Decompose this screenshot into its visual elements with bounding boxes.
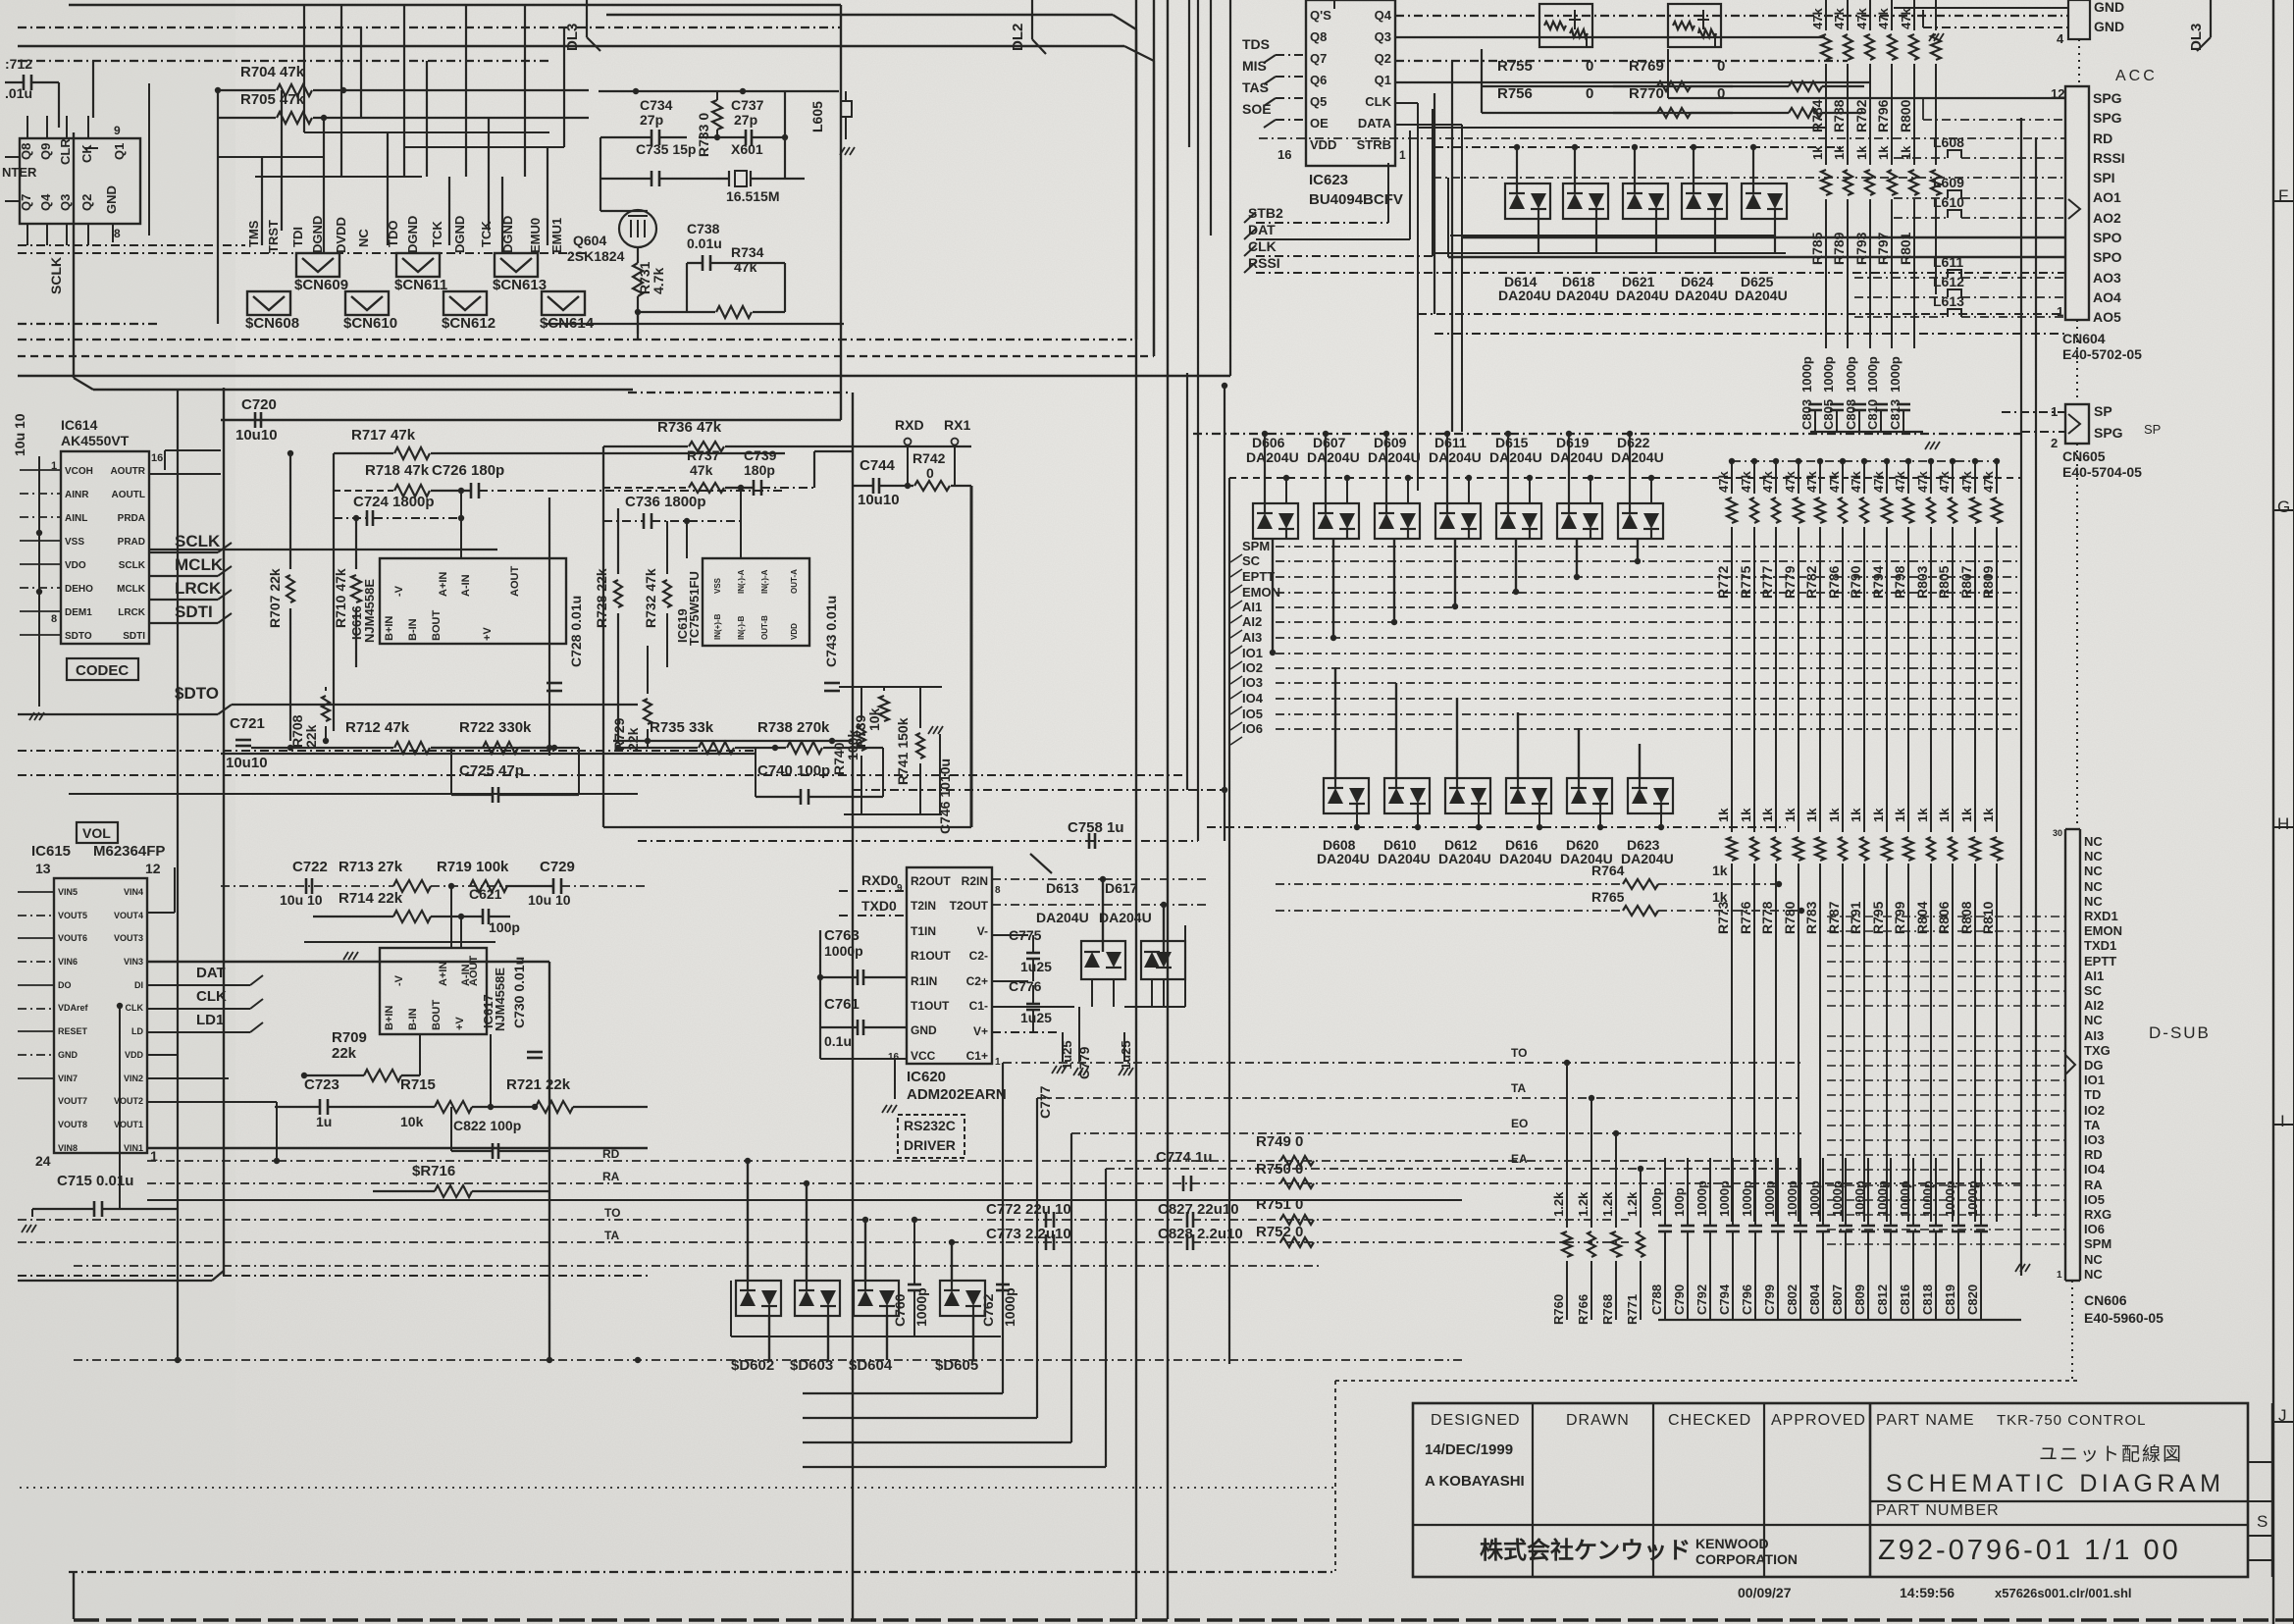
- wire: [448, 177, 450, 245]
- svg-text:IN(-)-B: IN(-)-B: [737, 615, 746, 640]
- svg-text:EO: EO: [1511, 1117, 1528, 1130]
- wire: [1153, 0, 1155, 356]
- svg-text:AI2: AI2: [2084, 998, 2104, 1013]
- wire: [1433, 177, 2065, 179]
- svg-text:1000p: 1000p: [913, 1287, 929, 1327]
- wire: [18, 713, 218, 715]
- svg-text:E40-5702-05: E40-5702-05: [2062, 346, 2142, 362]
- svg-text:I: I: [2280, 1112, 2285, 1130]
- svg-text:EPTT: EPTT: [1242, 569, 1275, 584]
- wire: [1507, 434, 1509, 503]
- svg-text:R777: R777: [1759, 565, 1775, 599]
- wire: [426, 61, 428, 177]
- svg-text:C730 0.01u: C730 0.01u: [511, 957, 527, 1028]
- wire: [2071, 1281, 2073, 1382]
- svg-text:C743 0.01u: C743 0.01u: [823, 596, 839, 667]
- svg-text:DRAWN: DRAWN: [1566, 1412, 1630, 1429]
- wire: [613, 740, 853, 742]
- svg-text:R717 47k: R717 47k: [351, 427, 416, 444]
- svg-text:TKR-750 CONTROL: TKR-750 CONTROL: [1997, 1412, 2147, 1429]
- svg-text:OUT-A: OUT-A: [790, 569, 799, 594]
- svg-text:1k: 1k: [1810, 145, 1825, 160]
- svg-text:C804: C804: [1807, 1283, 1822, 1315]
- diode D623: [1628, 778, 1673, 813]
- svg-text:VDD: VDD: [1310, 137, 1336, 152]
- svg-text:L609: L609: [1933, 175, 1964, 190]
- wire: [970, 486, 973, 827]
- svg-text:1000p: 1000p: [824, 943, 863, 959]
- wire: [223, 388, 225, 1276]
- wire: [1434, 333, 2065, 335]
- wire: [2076, 444, 2078, 829]
- wire: [20, 469, 61, 471]
- svg-text:IO6: IO6: [1242, 721, 1263, 736]
- svg-text:TXD0: TXD0: [861, 898, 897, 914]
- VOL box: [77, 822, 118, 843]
- svg-text:DA204U: DA204U: [1099, 910, 1152, 925]
- wire: [2035, 137, 2037, 1217]
- wire: [18, 1275, 648, 1277]
- wire: [1629, 434, 1631, 503]
- wire: [333, 453, 335, 731]
- wire: [1256, 222, 1388, 224]
- svg-text:R738 270k: R738 270k: [757, 719, 830, 736]
- svg-text:1000p: 1000p: [1002, 1287, 1017, 1327]
- svg-text:CLK: CLK: [1365, 94, 1391, 109]
- wire: [1827, 916, 2065, 917]
- svg-text:X601: X601: [731, 141, 763, 157]
- sheet bottom border: [74, 1618, 2294, 1621]
- svg-text:R784: R784: [1809, 99, 1825, 132]
- wire: [563, 27, 565, 147]
- svg-text:R718 47k: R718 47k: [365, 462, 430, 479]
- diode D620: [1567, 778, 1612, 813]
- svg-text:1k: 1k: [1871, 808, 1886, 822]
- svg-text:DAT: DAT: [1248, 222, 1276, 237]
- wire: [501, 177, 503, 253]
- diode $D604: [854, 1281, 899, 1316]
- wire: [18, 750, 756, 752]
- svg-text:MIS: MIS: [1242, 58, 1267, 74]
- svg-text:TD: TD: [2084, 1087, 2101, 1102]
- svg-text:R713 27k: R713 27k: [339, 859, 403, 875]
- svg-text:R707 22k: R707 22k: [267, 568, 283, 628]
- svg-text:CK: CK: [79, 144, 94, 163]
- svg-text:A+IN: A+IN: [438, 572, 449, 597]
- svg-text:+V: +V: [482, 627, 494, 641]
- svg-text:Q6: Q6: [1310, 73, 1327, 87]
- wire: [972, 1316, 974, 1360]
- svg-text:22k: 22k: [303, 724, 319, 748]
- svg-text:1.2k: 1.2k: [1551, 1191, 1566, 1217]
- svg-text:D611: D611: [1434, 435, 1467, 450]
- svg-text:R1IN: R1IN: [911, 974, 937, 988]
- wire: [1930, 527, 1932, 832]
- wire: [92, 61, 94, 118]
- svg-text:CLK: CLK: [1248, 238, 1277, 254]
- svg-text:IO3: IO3: [1242, 675, 1263, 690]
- svg-text:SCLK: SCLK: [175, 532, 221, 550]
- svg-text:10k: 10k: [866, 707, 882, 731]
- svg-text:R735 33k: R735 33k: [650, 719, 714, 736]
- svg-text:DA204U: DA204U: [1429, 449, 1482, 465]
- svg-text:-V: -V: [393, 974, 405, 986]
- svg-text:R783: R783: [1803, 901, 1819, 934]
- svg-text:47k: 47k: [734, 259, 757, 275]
- wire: [1578, 728, 1580, 778]
- svg-text:TA: TA: [604, 1229, 619, 1242]
- wire: [490, 1034, 492, 1107]
- svg-text:GND: GND: [911, 1023, 937, 1037]
- svg-text:TC75W51FU: TC75W51FU: [687, 571, 702, 646]
- svg-text:C1+: C1+: [966, 1049, 988, 1063]
- svg-text:AO2: AO2: [2093, 210, 2121, 226]
- wire: [323, 118, 325, 253]
- wire: [1842, 527, 1844, 832]
- diode D621: [1623, 183, 1668, 219]
- svg-text:VOUT4: VOUT4: [114, 911, 143, 920]
- svg-text:C737: C737: [731, 97, 764, 113]
- svg-text:AI1: AI1: [1242, 600, 1262, 614]
- svg-text:R732 47k: R732 47k: [643, 568, 658, 628]
- wire: [1395, 60, 1848, 62]
- wire: [488, 118, 490, 231]
- svg-text:C816: C816: [1898, 1284, 1912, 1315]
- svg-text:IO1: IO1: [1242, 646, 1263, 660]
- svg-text:C788: C788: [1649, 1284, 1664, 1315]
- svg-text:R769: R769: [1629, 58, 1664, 75]
- wire: [840, 5, 842, 420]
- diode D619: [1557, 503, 1602, 539]
- svg-text:R705 47k: R705 47k: [240, 91, 305, 108]
- svg-text:1k: 1k: [1854, 145, 1869, 160]
- wire SPM: [1276, 546, 2021, 548]
- svg-text:47k: 47k: [1871, 471, 1886, 493]
- svg-text:AINL: AINL: [65, 513, 87, 524]
- svg-text:C762: C762: [980, 1293, 996, 1327]
- svg-text:$CN613: $CN613: [493, 277, 547, 293]
- wire: [147, 912, 175, 914]
- svg-text:DA204U: DA204U: [1499, 851, 1552, 866]
- svg-text:DA204U: DA204U: [1735, 288, 1788, 303]
- svg-text:R809: R809: [1980, 565, 1996, 599]
- svg-text:OUT-B: OUT-B: [760, 615, 769, 640]
- svg-text:27p: 27p: [734, 112, 757, 128]
- svg-text:R782: R782: [1803, 565, 1819, 599]
- diode $D602: [736, 1281, 781, 1316]
- svg-text:IC614: IC614: [61, 417, 98, 433]
- svg-text:1.2k: 1.2k: [1576, 1191, 1590, 1217]
- wire: [18, 1008, 54, 1010]
- svg-text:R792: R792: [1853, 99, 1869, 132]
- svg-text:L613: L613: [1933, 293, 1964, 309]
- IC U614: [61, 451, 149, 644]
- wire: [18, 1280, 212, 1282]
- wire: [1827, 1094, 2065, 1096]
- svg-text:DO: DO: [58, 980, 72, 990]
- wire: [1775, 527, 1777, 832]
- svg-text:SPI: SPI: [2093, 170, 2115, 185]
- svg-text:C807: C807: [1830, 1284, 1845, 1315]
- svg-text:1k: 1k: [1937, 808, 1952, 822]
- svg-text:C1-: C1-: [969, 999, 988, 1013]
- svg-text:AOUT: AOUT: [509, 566, 521, 597]
- wire: [1827, 1184, 2065, 1186]
- svg-text:L610: L610: [1933, 194, 1964, 210]
- svg-text:DA204U: DA204U: [1378, 851, 1431, 866]
- wire IO6: [1276, 728, 2021, 730]
- wire: [1538, 813, 1540, 827]
- svg-text:1k: 1k: [1712, 863, 1728, 878]
- svg-text:VIN4: VIN4: [124, 887, 143, 897]
- svg-text:VOUT2: VOUT2: [114, 1096, 143, 1106]
- svg-text:-V: -V: [393, 585, 405, 597]
- wire: [1395, 683, 1397, 778]
- svg-text:100p: 100p: [1672, 1187, 1687, 1217]
- svg-text:RX1: RX1: [944, 417, 970, 433]
- svg-text:APPROVED: APPROVED: [1771, 1412, 1866, 1429]
- svg-text:CORPORATION: CORPORATION: [1695, 1551, 1798, 1567]
- svg-text:C724 1800p: C724 1800p: [353, 494, 435, 510]
- svg-text:SCHEMATIC DIAGRAM: SCHEMATIC DIAGRAM: [1886, 1470, 2225, 1497]
- svg-text:STRB: STRB: [1357, 137, 1391, 152]
- wire: [1827, 1139, 2065, 1141]
- wire: [1827, 961, 2065, 963]
- svg-text:1k: 1k: [1783, 808, 1798, 822]
- svg-text:$R716: $R716: [412, 1163, 455, 1179]
- svg-text:R709: R709: [332, 1029, 367, 1046]
- wire: [1863, 527, 1865, 832]
- wire: [18, 961, 54, 963]
- ground: [22, 1225, 26, 1232]
- svg-text:1.2k: 1.2k: [1625, 1191, 1640, 1217]
- svg-text:SP: SP: [2144, 422, 2161, 437]
- svg-text:R806: R806: [1936, 901, 1952, 934]
- svg-text:TDI: TDI: [290, 227, 305, 247]
- wire: [628, 392, 849, 393]
- wire: [1599, 813, 1601, 827]
- wire: [602, 446, 604, 827]
- svg-text:C726 180p: C726 180p: [432, 462, 504, 479]
- svg-text:CLK: CLK: [126, 1003, 144, 1013]
- svg-text:VSS: VSS: [65, 537, 84, 548]
- IC U616: [380, 558, 566, 644]
- wire: [1515, 539, 1517, 592]
- svg-text:R755: R755: [1497, 58, 1533, 75]
- wire: [149, 473, 221, 475]
- svg-text:DA204U: DA204U: [1550, 449, 1603, 465]
- wire: [1135, 0, 1137, 1619]
- wire: [303, 5, 305, 132]
- wire: [18, 323, 157, 325]
- wire: [1193, 433, 2021, 435]
- svg-text:R788: R788: [1831, 99, 1847, 132]
- svg-text:NC: NC: [2084, 834, 2103, 849]
- wire: [147, 1054, 178, 1056]
- svg-text:S: S: [2257, 1512, 2268, 1531]
- wire: [5, 156, 20, 158]
- svg-text:10u10: 10u10: [226, 755, 268, 771]
- svg-text:1000p: 1000p: [1762, 1180, 1777, 1217]
- svg-text:R807: R807: [1958, 565, 1974, 599]
- wire: [827, 1316, 829, 1360]
- svg-text:DA204U: DA204U: [1036, 910, 1089, 925]
- svg-text:NJM4558E: NJM4558E: [493, 968, 507, 1031]
- wire SC: [1276, 560, 2021, 562]
- wire: [894, 1059, 896, 1099]
- svg-text:R768: R768: [1600, 1294, 1615, 1325]
- svg-text:TA: TA: [2084, 1118, 2101, 1132]
- svg-text:CN605: CN605: [2062, 448, 2106, 464]
- wire: [18, 1054, 54, 1056]
- wire: [218, 156, 324, 158]
- svg-text:C722: C722: [292, 859, 328, 875]
- svg-text:SCLK: SCLK: [119, 560, 146, 571]
- wire: [58, 82, 60, 128]
- svg-text:0: 0: [1586, 85, 1593, 102]
- wire: [864, 1220, 866, 1281]
- wire: [853, 789, 1225, 791]
- wire: [20, 610, 61, 612]
- svg-text:1000p: 1000p: [1740, 1180, 1754, 1217]
- connector $CN610: [345, 291, 389, 315]
- svg-text:L611: L611: [1933, 254, 1963, 270]
- wire: [2020, 1222, 2022, 1259]
- diode D610: [1384, 778, 1430, 813]
- RS232C driver box: [898, 1115, 965, 1158]
- svg-text:47k: 47k: [1899, 8, 1913, 29]
- ground: [2015, 1264, 2020, 1272]
- wire: [66, 116, 68, 138]
- svg-text:GND: GND: [2094, 0, 2124, 15]
- svg-text:47k: 47k: [1716, 471, 1731, 493]
- diode D612: [1445, 778, 1490, 813]
- sheet right border: [2272, 0, 2274, 1624]
- wire: [768, 1316, 770, 1360]
- svg-text:MCLK: MCLK: [117, 584, 146, 595]
- wire: [221, 753, 756, 755]
- svg-text:R796: R796: [1875, 99, 1891, 132]
- wire: [281, 90, 283, 231]
- wire: [69, 793, 638, 795]
- svg-text:C820: C820: [1965, 1284, 1980, 1315]
- svg-text:J: J: [2278, 1406, 2287, 1425]
- wire: [637, 312, 639, 339]
- title block frame: [1413, 1403, 2248, 1577]
- svg-text:10u 10: 10u 10: [12, 413, 27, 456]
- svg-text:IO2: IO2: [2084, 1103, 2105, 1118]
- svg-text:SPM: SPM: [2084, 1236, 2112, 1251]
- svg-text:TDO: TDO: [386, 221, 400, 247]
- svg-text:IO5: IO5: [2084, 1192, 2105, 1207]
- svg-text:EMU1: EMU1: [549, 218, 564, 253]
- svg-text:C725 47p: C725 47p: [459, 762, 524, 779]
- wire: [147, 1199, 1462, 1201]
- IC U615: [54, 878, 147, 1153]
- svg-text:CODEC: CODEC: [76, 662, 129, 679]
- svg-text:DL3: DL3: [564, 24, 581, 51]
- svg-text:PART NAME: PART NAME: [1876, 1412, 1975, 1429]
- svg-text:TRST: TRST: [266, 220, 281, 253]
- svg-text:8: 8: [995, 885, 1001, 896]
- svg-text:DGND: DGND: [500, 216, 515, 253]
- wire: [1996, 527, 1998, 832]
- svg-text:R804: R804: [1914, 901, 1930, 934]
- wire: [1827, 1035, 2065, 1037]
- svg-text:R776: R776: [1738, 901, 1753, 934]
- svg-text:47k: 47k: [1810, 8, 1825, 29]
- svg-text:SC: SC: [1242, 553, 1261, 568]
- wire EO: [1071, 1132, 1801, 1134]
- wire: [348, 917, 350, 944]
- svg-text:47k: 47k: [1827, 471, 1842, 493]
- svg-text:RSSI: RSSI: [2093, 150, 2125, 166]
- svg-text:L612: L612: [1933, 274, 1964, 289]
- wire: [1124, 1006, 1185, 1008]
- svg-text:RS232C: RS232C: [904, 1118, 956, 1133]
- svg-text:R2IN: R2IN: [962, 874, 988, 888]
- svg-text:$CN612: $CN612: [442, 315, 495, 332]
- svg-text:0: 0: [1717, 85, 1725, 102]
- wire: [1229, 477, 2021, 479]
- svg-text:1k: 1k: [1915, 808, 1930, 822]
- svg-text:AO5: AO5: [2093, 309, 2121, 325]
- svg-text:1000p: 1000p: [1807, 1180, 1822, 1217]
- wire: [20, 563, 61, 565]
- wire: [18, 891, 54, 893]
- svg-text:TCK: TCK: [430, 221, 444, 247]
- wire: [1660, 813, 1662, 827]
- svg-text:C810: C810: [1865, 399, 1880, 430]
- svg-text:R787: R787: [1826, 901, 1842, 934]
- svg-text:R750 0: R750 0: [1256, 1161, 1303, 1178]
- svg-text:T1IN: T1IN: [911, 924, 936, 938]
- wire: [819, 930, 821, 1059]
- wire: [813, 451, 815, 488]
- wire: [1186, 373, 1188, 790]
- svg-text:47k: 47k: [1893, 471, 1907, 493]
- IC U620: [907, 867, 992, 1064]
- svg-text:12: 12: [145, 861, 161, 876]
- svg-text:DI: DI: [134, 980, 143, 990]
- svg-text:E40-5704-05: E40-5704-05: [2062, 464, 2142, 480]
- wire: [1731, 527, 1733, 832]
- wire: [1030, 854, 1052, 873]
- svg-text:1000p: 1000p: [1717, 1180, 1732, 1217]
- svg-text:C761: C761: [824, 996, 860, 1013]
- svg-text:Q3: Q3: [58, 194, 73, 211]
- wire: [1334, 667, 1336, 778]
- svg-text:ADM202EARN: ADM202EARN: [907, 1086, 1007, 1103]
- diode $D603: [795, 1281, 840, 1316]
- wire: [1481, 49, 1483, 113]
- ground: [1929, 33, 1934, 41]
- svg-text:RXD0: RXD0: [861, 872, 899, 888]
- svg-text:NC: NC: [2084, 879, 2103, 894]
- svg-text:DRIVER: DRIVER: [904, 1137, 956, 1153]
- wire: [686, 521, 688, 558]
- svg-text:SPG: SPG: [2093, 110, 2122, 126]
- svg-text:R771: R771: [1625, 1294, 1640, 1325]
- svg-text:Q7: Q7: [1310, 51, 1327, 66]
- wire: [852, 393, 854, 1619]
- wire: [1516, 147, 1518, 183]
- wire: [1385, 434, 1387, 503]
- svg-text:CN606: CN606: [2084, 1292, 2127, 1308]
- svg-text:C729: C729: [540, 859, 575, 875]
- svg-text:STB2: STB2: [1248, 205, 1283, 221]
- svg-text:1u25: 1u25: [1020, 959, 1052, 974]
